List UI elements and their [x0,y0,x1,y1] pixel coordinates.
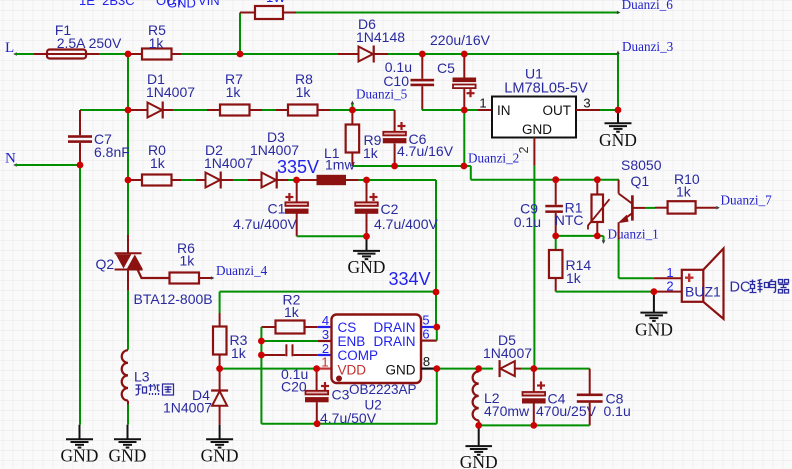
wire [352,165,470,167]
wire [127,291,129,350]
svg-text:1k: 1k [226,84,242,100]
wire [297,235,367,237]
svg-text:1k: 1k [296,84,312,100]
node junction [125,177,132,184]
label Q1 [631,173,650,189]
node junction [216,365,223,372]
resistor R7 [207,105,262,116]
svg-text:Duanzi_6: Duanzi_6 [622,0,674,12]
svg-text:Duanzi_1: Duanzi_1 [608,227,659,242]
label D3 [267,129,285,145]
wire [422,53,464,55]
node junction [349,107,356,114]
op-amp U1 (regulator LM78L05) [492,97,576,138]
node junction [363,177,370,184]
svg-text:BUZ1: BUZ1 [685,284,721,300]
pin 4 of U2 [318,313,332,328]
svg-text:1k: 1k [676,184,692,200]
label R9 [364,132,382,148]
node junction [615,107,622,114]
ground [635,292,673,340]
value 1k [231,345,247,361]
label L2 [484,390,500,406]
svg-text:4.7u/16V: 4.7u/16V [397,143,454,159]
label R14 [566,257,592,273]
svg-text:1k: 1k [180,253,196,269]
pin 1 of U2 [317,355,332,370]
pin 2 of U2 [318,341,332,356]
value 4.7u/400V [233,216,297,232]
wire [556,291,654,293]
value 1k [676,184,692,200]
wire [471,179,619,181]
ground [348,236,386,277]
wire [99,53,128,55]
value OB2223AP [349,382,417,397]
label Q2 [96,256,115,272]
svg-text:LM78L05-5V: LM78L05-5V [504,80,588,96]
label R0 [148,142,166,158]
node junction [461,51,468,58]
port L [5,40,17,56]
node junction [552,233,559,240]
resistor R1 (NTC) [588,180,610,236]
value 1mw [325,157,355,173]
node junction [530,365,537,372]
diode D2 [196,172,233,189]
wire [463,110,465,166]
wire [127,110,129,180]
node junction [313,365,320,372]
node junction [419,51,426,58]
ground [61,425,99,466]
label C9 [520,201,538,217]
node junction [651,288,658,295]
wire [127,180,129,235]
wire [479,424,590,426]
value 2.5A 250V [57,35,122,51]
svg-text:C3: C3 [332,387,350,403]
svg-text:DC: DC [730,280,751,296]
svg-text:1W: 1W [266,0,286,5]
svg-text:470u/25V: 470u/25V [536,403,597,419]
label C20 [281,379,307,395]
node OUT-VIN (clipped text) [156,0,220,8]
fuse F1 [34,50,99,59]
label R8 [295,71,313,87]
wire [533,166,535,369]
value 1N4007 [483,345,532,361]
svg-text:1N4007: 1N4007 [250,142,299,158]
wire [600,109,618,111]
wire [330,109,352,111]
capacitor C2 [355,180,379,236]
capacitor C6 [383,110,407,166]
value 0.1u [514,214,541,230]
node junction [552,176,559,183]
value 4.7u/400V [374,216,438,232]
svg-text:GND: GND [386,363,416,378]
wire [15,164,80,166]
wire [436,327,438,341]
svg-text:334V: 334V [389,269,431,289]
svg-text:0.1u: 0.1u [604,403,631,419]
resistor R10 [655,201,716,213]
wire [262,109,276,111]
wire [367,179,437,181]
value 1k [226,84,242,100]
label D1 [147,71,165,87]
svg-text:OUT: OUT [543,103,572,118]
node junction [77,162,84,169]
node junction [461,163,468,170]
svg-text:4: 4 [322,313,329,328]
wire [233,179,248,181]
inductor L2 [473,369,479,426]
wire [127,405,129,425]
wire [127,54,129,110]
wire [220,368,317,370]
svg-text:L: L [5,40,14,56]
wire [288,179,297,181]
value 1N4007 [163,400,212,416]
svg-text:4.7u/400V: 4.7u/400V [233,216,297,232]
label C8 [606,391,624,407]
port Duanzi_5 [351,87,408,110]
label C1 [268,201,286,217]
label R5 [148,22,166,38]
node junction [125,51,132,58]
label R1 [565,199,583,215]
pin 5 of U2 [421,313,437,328]
wire [240,53,338,55]
svg-text:1: 1 [321,355,328,370]
svg-text:C5: C5 [437,60,455,76]
value 1N4007 [204,155,253,171]
svg-text:Duanzi_3: Duanzi_3 [622,39,674,54]
svg-text:335V: 335V [277,157,319,177]
svg-text:1k: 1k [231,345,247,361]
svg-text:6.8nF: 6.8nF [94,144,130,160]
svg-text:ENB: ENB [338,334,366,349]
capacitor C8 [577,369,603,426]
wire [435,180,437,292]
pin 2 of U1 [517,138,534,166]
wire [79,165,81,425]
value 0.1u [281,366,308,382]
label R6 [177,240,195,256]
svg-text:1N4148: 1N4148 [356,29,405,45]
wire [422,109,464,111]
port Duanzi_2 [468,151,519,166]
svg-text:4.7u/50V: 4.7u/50V [320,410,377,426]
label D2 [205,142,223,158]
node GND (clipped text) [167,0,196,11]
resistor R5 [128,49,181,60]
label D6 [358,16,376,32]
wire [464,109,478,111]
ground [599,110,637,150]
wire [352,109,394,111]
svg-text:1mw: 1mw [325,157,355,173]
pin 3 of U1 [576,96,600,111]
wire [239,13,241,55]
label U1 [525,66,543,82]
svg-text:Duanzi_7: Duanzi_7 [721,193,773,208]
value 1k [566,270,582,286]
node junction [237,51,244,58]
capacitor C5 [453,54,477,110]
svg-text:CS: CS [338,320,357,335]
svg-text:Duanzi_4: Duanzi_4 [216,263,268,278]
svg-text:1N4007: 1N4007 [204,155,253,171]
diode D5 [500,360,521,377]
resistor R9 [346,110,360,166]
svg-text:5: 5 [422,313,429,328]
wire [464,53,618,55]
wire [181,179,206,181]
svg-text:1k: 1k [363,145,379,161]
node junction [433,324,440,331]
value 1k [296,84,312,100]
buzzer BUZ1 [682,249,724,319]
wire [521,368,534,370]
wire [470,166,472,180]
svg-text:GND: GND [109,446,147,466]
value 0.1u [385,59,412,75]
svg-text:GND: GND [522,122,552,137]
svg-text:Q1: Q1 [631,173,650,189]
diode D1 [128,102,173,119]
node junction [594,176,601,183]
label C2 [381,201,399,217]
node junction [433,289,440,296]
wire [260,327,262,341]
svg-text:NTC: NTC [555,212,584,228]
value 1k [180,253,196,269]
svg-text:8: 8 [423,354,430,369]
port Duanzi_7 [716,193,772,210]
port Duanzi_4 [211,263,268,280]
transistor Q1 [618,180,646,240]
value 1N4148 [356,29,405,45]
svg-text:IN: IN [497,103,511,118]
value LM78L05-5V [504,80,588,96]
svg-text:GND: GND [167,0,196,11]
wire [534,368,590,370]
capacitor C10 [411,54,435,110]
svg-text:Duanzi_5: Duanzi_5 [356,87,408,102]
capacitor C20 [261,344,317,356]
svg-text:6: 6 [422,327,429,342]
node junction [461,107,468,114]
svg-text:GND: GND [61,446,99,466]
node junction [125,107,132,114]
label C4 [548,391,566,407]
pin 6 of U2 [421,327,437,342]
svg-text:GND: GND [460,452,498,469]
node junction [530,422,537,429]
svg-text:DRAIN: DRAIN [373,334,415,349]
diode D3 [248,172,288,189]
svg-text:3: 3 [322,327,329,342]
pin 8 of U2 [421,354,437,369]
svg-text:3: 3 [583,96,590,111]
node 334V [389,269,431,289]
node junction [475,422,482,429]
pin 3 of U2 [318,327,332,342]
wire [617,54,619,110]
resistor R8 [276,105,330,116]
value label above top resistor (clipped) [266,0,286,5]
node junction [391,163,398,170]
pin 1 of U1 [478,96,492,111]
ground [460,425,498,469]
svg-text:N: N [5,151,16,167]
node junction [363,233,370,240]
svg-text:GND: GND [635,319,673,339]
value BTA12-800B [134,291,213,307]
label L1 [324,145,340,161]
node junction [475,365,482,372]
svg-text:2.5A 250V: 2.5A 250V [57,35,122,51]
label C7 [94,131,112,147]
node junction [314,420,321,427]
value 0.1u [604,403,631,419]
svg-text:1k: 1k [150,155,166,171]
svg-text:GND: GND [348,257,386,277]
label C10 [383,73,409,89]
capacitor C9 [545,180,563,236]
label F1 [55,22,72,38]
wire [260,355,262,424]
svg-text:2: 2 [666,279,673,294]
svg-text:Duanzi_2: Duanzi_2 [468,151,519,166]
node junction [258,352,265,359]
svg-text:1: 1 [479,96,486,111]
wire [533,368,535,370]
svg-text:1N4007: 1N4007 [483,345,532,361]
value 1k [284,304,300,320]
svg-text:DRAIN: DRAIN [373,320,415,335]
svg-text:4.7u/400V: 4.7u/400V [374,216,438,232]
label U2 [365,398,382,413]
resistor R2 [261,321,317,334]
resistor R14 [549,236,563,292]
wire [618,240,620,279]
label S8050 [621,157,662,173]
resistor (cut at top) [240,6,296,19]
wire [388,53,422,55]
node junction [594,233,601,240]
svg-text:1N4007: 1N4007 [163,400,212,416]
svg-text:Q2: Q2 [96,256,115,272]
svg-text:L3: L3 [134,369,150,385]
svg-text:GND: GND [599,130,637,150]
capacitor C7 [68,110,92,165]
inductor L3 [122,350,128,404]
wire [15,53,34,55]
wire [219,292,221,313]
svg-text:VIN: VIN [198,0,220,8]
value 1N4007 [250,142,299,158]
wire [80,109,128,111]
port Duanzi_6 [617,0,673,14]
pin 2 of BUZ1 [654,279,682,294]
port Duanzi_1 [602,227,659,245]
svg-text:C2: C2 [381,201,399,217]
svg-text:COMP: COMP [338,348,379,363]
value 1N4007 [146,84,195,100]
wire [260,341,262,355]
wire [359,179,367,181]
op-amp U2 (controller OB2223AP) [332,315,422,384]
capacitor C3 [305,369,329,424]
node junction [433,365,440,372]
svg-text:C1: C1 [268,201,286,217]
value 4.7u/50V [320,410,377,426]
wire [646,207,655,209]
svg-text:U1: U1 [525,66,543,82]
wire [435,292,437,327]
label C3 [332,387,350,403]
label C5 [437,60,455,76]
value 470mw [484,403,530,419]
wire [619,277,654,279]
label R3 [230,332,248,348]
transistor Q2 (triac) [115,235,143,291]
value 6.8nF [94,144,130,160]
value NTC [555,212,584,228]
label D4 [192,387,210,403]
svg-text:VDD: VDD [338,363,367,378]
node 335V [277,157,319,177]
svg-text:OB2223AP: OB2223AP [349,382,417,397]
label L3 [134,369,150,385]
svg-text:1k: 1k [566,270,582,286]
svg-text:BTA12-800B: BTA12-800B [134,291,213,307]
wire [479,368,493,370]
node junction [293,177,300,184]
value 220u/16V [430,32,491,48]
svg-text:S8050: S8050 [621,157,662,173]
ground [109,425,147,466]
svg-text:0.1u: 0.1u [514,214,541,230]
resistor R0 [128,175,181,186]
value 470u/25V [536,403,597,419]
svg-text:1N4007: 1N4007 [146,84,195,100]
svg-text:1E 2B3C: 1E 2B3C [79,0,135,8]
wire [437,368,479,370]
port N [5,151,17,167]
node junction [258,338,265,345]
wire [173,109,207,111]
wire [597,236,603,241]
value 加热圈 (heating coil) [136,384,174,395]
label R7 [225,71,243,87]
value 1k [149,35,165,51]
svg-text:C20: C20 [281,379,307,395]
label R10 [674,171,700,187]
label R2 [283,292,301,308]
resistor R6 [138,270,212,284]
value 1k [363,145,379,161]
svg-text:1k: 1k [284,304,300,320]
svg-text:GND: GND [201,446,239,466]
wire [296,12,619,14]
wire [181,53,240,55]
value DC蜂鸣器 (DC buzzer) [730,280,789,296]
